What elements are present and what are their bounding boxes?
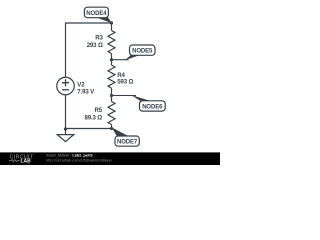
V2 plus sign: [62, 79, 69, 86]
svg-text:NODE5: NODE5: [132, 49, 153, 55]
wire R5 to bottom corner: [111, 125, 113, 129]
footer bar: [0, 152, 220, 165]
wire top horizontal: [66, 22, 112, 24]
wire left vertical top: [65, 22, 67, 77]
svg-text:89.3 Ω: 89.3 Ω: [84, 115, 102, 122]
wire R4 to NODE6 junction: [111, 88, 113, 101]
svg-text:NODE7: NODE7: [117, 140, 138, 146]
svg-text:593 Ω: 593 Ω: [117, 78, 133, 85]
wire bottom horizontal: [66, 128, 112, 130]
resistor R3: [108, 31, 115, 54]
resistor R4: [108, 65, 115, 88]
node NODE4 junction dot: [110, 21, 113, 24]
node NODE7: [112, 127, 140, 146]
wire R3 to NODE5 junction: [111, 54, 113, 66]
ground: [57, 129, 74, 142]
V2 minus sign: [62, 89, 69, 91]
svg-text:NODE6: NODE6: [142, 104, 163, 110]
node NODE5 junction dot: [110, 58, 113, 61]
node NODE6 junction dot: [110, 94, 113, 97]
node NODE4: [84, 7, 112, 23]
svg-text:http://circuitlab.com/c/5dsakm: http://circuitlab.com/c/5dsakmm38kyw: [46, 157, 112, 162]
svg-text:LAB: LAB: [21, 159, 32, 165]
ground junction dot: [64, 127, 67, 130]
node NODE6: [112, 95, 166, 111]
voltage source V2: [57, 77, 75, 95]
svg-text:R3: R3: [95, 35, 103, 42]
svg-text:7.93 V: 7.93 V: [77, 89, 95, 96]
svg-text:NODE4: NODE4: [86, 11, 107, 17]
node NODE5: [112, 45, 156, 60]
svg-text:293 Ω: 293 Ω: [87, 42, 103, 49]
svg-text:R5: R5: [95, 107, 103, 114]
resistor R5: [108, 102, 115, 125]
wire left vertical bottom: [65, 95, 67, 129]
node NODE7 junction dot: [110, 127, 113, 130]
wire right top stub: [111, 23, 113, 31]
